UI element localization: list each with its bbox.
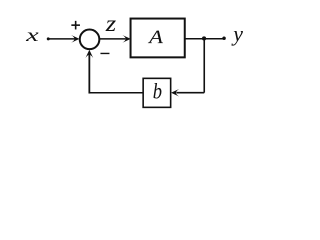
plus sign at summing junction [71,21,80,30]
node: output dot [222,37,226,41]
wire: x node to summing junction [48,38,74,40]
wire: feedback vertical rise to summing junction [88,52,90,93]
wire: block b output to left corner [89,92,144,94]
arrowhead into summing junction (from x) [71,35,79,43]
node: feedback tap junction dot [202,36,206,40]
wire: summing junction to block A [99,38,125,40]
block b box [143,78,171,107]
label y (output signal) [231,31,243,46]
wire: feedback horizontal into block b [176,92,204,94]
arrowhead into block b [171,89,179,97]
summing junction circle [80,30,100,50]
arrowhead into block A [122,35,130,43]
label b (feedback gain) [153,83,161,99]
minus sign at summing junction [100,52,109,54]
label A (forward gain) [148,31,163,44]
wire: block A to output node y [185,38,224,40]
block A box [131,19,185,58]
wire: feedback vertical drop from tap junction [203,39,205,93]
label z (error signal) [105,20,115,30]
label x (input signal) [26,32,39,40]
arrowhead into summing junction (feedback, pointing up) [85,50,93,58]
node: input dot [47,37,50,40]
